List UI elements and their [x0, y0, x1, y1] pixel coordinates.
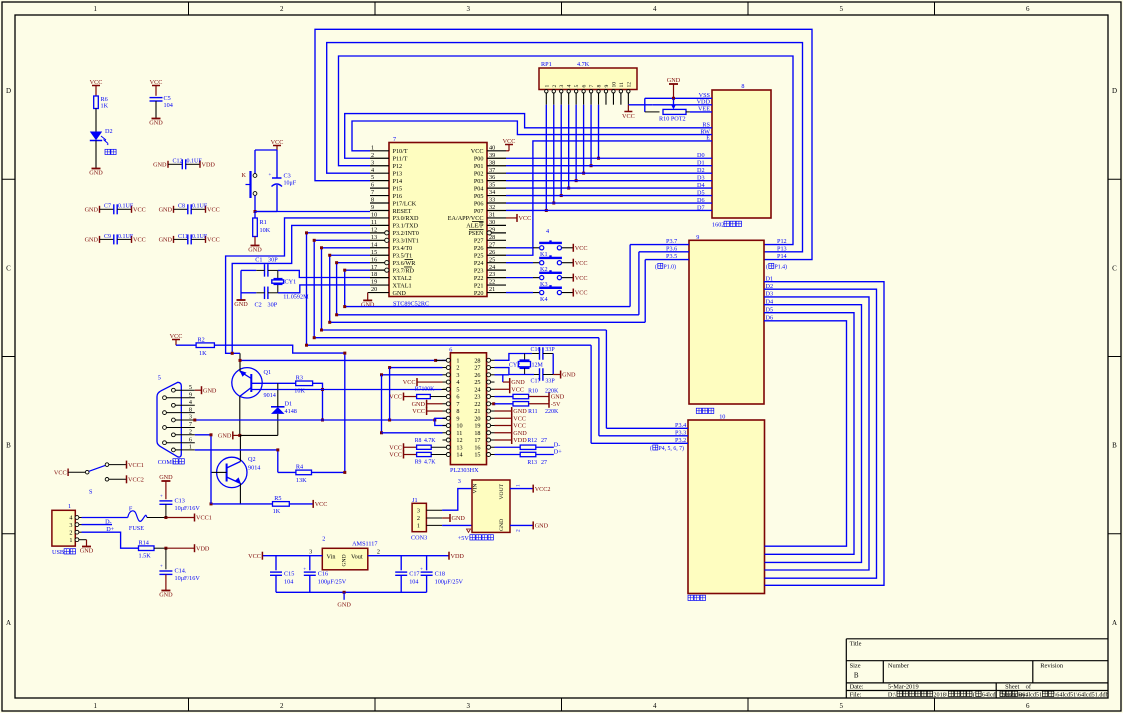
svg-text:3: 3	[417, 507, 420, 514]
svg-text:VCC: VCC	[412, 408, 425, 415]
svg-text:C17: C17	[531, 379, 541, 385]
svg-text:4: 4	[653, 702, 657, 710]
svg-text:30P: 30P	[268, 257, 278, 264]
svg-text:2: 2	[69, 529, 72, 536]
svg-text:39: 39	[489, 152, 495, 159]
svg-text:3: 3	[467, 702, 471, 710]
svg-text:2: 2	[322, 536, 325, 543]
svg-text:VCC: VCC	[511, 386, 524, 393]
svg-text:10: 10	[456, 423, 462, 430]
svg-text:GND: GND	[153, 162, 167, 169]
svg-text:A: A	[6, 619, 11, 627]
svg-text:GND: GND	[80, 548, 94, 555]
svg-text:9014: 9014	[248, 465, 260, 472]
svg-text:C11: C11	[178, 234, 188, 240]
svg-text:K4: K4	[540, 296, 548, 303]
svg-text:1.5K: 1.5K	[139, 552, 152, 559]
svg-text:1K: 1K	[273, 508, 281, 515]
svg-text:C1: C1	[255, 257, 262, 264]
svg-text:VCC: VCC	[150, 79, 163, 86]
svg-text:VIN: VIN	[473, 484, 479, 494]
svg-text:P3.4: P3.4	[675, 422, 686, 429]
svg-text:17: 17	[474, 437, 480, 444]
svg-text:0.1UF: 0.1UF	[118, 234, 134, 240]
svg-text:Sheet of: Sheet of	[1005, 684, 1032, 691]
svg-text:J1: J1	[412, 497, 418, 504]
svg-text:D-: D-	[554, 441, 561, 448]
svg-text:VCC: VCC	[513, 423, 526, 430]
svg-text:1: 1	[516, 484, 522, 487]
svg-text:30P: 30P	[268, 302, 278, 309]
svg-text:3: 3	[69, 522, 72, 529]
svg-text:VCC1: VCC1	[196, 515, 212, 522]
svg-text:8: 8	[456, 408, 459, 415]
svg-text:VCC: VCC	[513, 415, 526, 422]
svg-text:1: 1	[68, 503, 71, 510]
svg-text:C12: C12	[173, 159, 183, 165]
svg-text:0.1UF: 0.1UF	[192, 204, 208, 210]
svg-text:VCC: VCC	[207, 237, 220, 244]
svg-text:10μF: 10μF	[284, 181, 297, 187]
svg-text:8: 8	[597, 85, 603, 88]
svg-text:5: 5	[158, 375, 161, 382]
svg-text:4: 4	[567, 85, 573, 88]
svg-text:30: 30	[489, 219, 495, 226]
svg-text:12M: 12M	[532, 363, 544, 369]
svg-text:B: B	[1112, 442, 1117, 450]
svg-text:VCC: VCC	[389, 444, 402, 451]
svg-text:+: +	[420, 568, 423, 573]
svg-text:32: 32	[489, 204, 495, 211]
svg-text:+: +	[160, 495, 163, 500]
svg-text:100μF/25V: 100μF/25V	[435, 579, 464, 586]
svg-text:P03: P03	[474, 178, 484, 185]
svg-text:2: 2	[377, 549, 380, 556]
svg-text:File:: File:	[850, 692, 862, 699]
svg-text:P13: P13	[393, 170, 403, 177]
svg-text:GND: GND	[159, 237, 173, 244]
svg-text:GND: GND	[393, 290, 407, 297]
svg-text:VCC: VCC	[575, 275, 588, 282]
svg-text:10μF/16V: 10μF/16V	[175, 575, 201, 582]
svg-text:C17: C17	[409, 571, 419, 578]
svg-text:27: 27	[474, 365, 480, 372]
svg-text:1: 1	[417, 523, 420, 530]
svg-text:S: S	[89, 489, 93, 496]
svg-text:21: 21	[474, 408, 480, 415]
svg-text:XTAL2: XTAL2	[393, 275, 412, 282]
svg-text:2: 2	[371, 152, 374, 159]
svg-text:GND: GND	[562, 372, 576, 379]
svg-text:P22: P22	[474, 275, 484, 282]
svg-text:GND: GND	[149, 120, 163, 127]
svg-text:Vin: Vin	[327, 554, 336, 561]
svg-text:P15: P15	[393, 185, 403, 192]
svg-text:5: 5	[456, 386, 459, 393]
svg-text:15: 15	[474, 452, 480, 459]
svg-text:GND: GND	[513, 430, 527, 437]
svg-text:AMS1117: AMS1117	[352, 541, 377, 548]
svg-text:Revision: Revision	[1040, 663, 1064, 670]
svg-text:VCC: VCC	[575, 290, 588, 297]
svg-text:CY1: CY1	[285, 279, 297, 286]
svg-text:4: 4	[456, 379, 459, 386]
svg-text:0.1UF: 0.1UF	[118, 204, 134, 210]
svg-text:25: 25	[474, 379, 480, 386]
svg-text:17: 17	[371, 264, 377, 271]
svg-text:GND: GND	[511, 379, 525, 386]
svg-text:7: 7	[371, 189, 374, 196]
svg-text:(: (	[766, 263, 768, 270]
svg-text:25: 25	[489, 256, 495, 263]
svg-text:8: 8	[189, 406, 192, 413]
svg-text:1: 1	[371, 144, 374, 151]
svg-text:27: 27	[489, 241, 495, 248]
svg-text:D: D	[1112, 87, 1117, 95]
svg-text:64lcd: 64lcd	[982, 692, 997, 699]
svg-text:4: 4	[653, 5, 657, 13]
svg-text:VCC: VCC	[389, 394, 402, 401]
svg-text:VCC: VCC	[471, 148, 484, 155]
svg-text:VCC: VCC	[54, 469, 67, 476]
svg-text:ALE/P: ALE/P	[466, 223, 484, 230]
svg-text:C9: C9	[104, 234, 111, 240]
svg-text:23: 23	[474, 394, 480, 401]
svg-text:22: 22	[474, 401, 480, 408]
svg-text:P05: P05	[474, 193, 484, 200]
svg-text:VCC2: VCC2	[535, 486, 551, 493]
svg-text:6: 6	[1026, 702, 1030, 710]
svg-text:5: 5	[574, 85, 580, 88]
svg-text:COM1: COM1	[158, 459, 177, 466]
svg-text:6: 6	[582, 85, 588, 88]
svg-text:GND: GND	[452, 515, 466, 522]
svg-text:36: 36	[489, 174, 495, 181]
svg-text:38: 38	[489, 159, 495, 166]
svg-text:C16: C16	[318, 571, 328, 578]
svg-text:P25: P25	[474, 253, 484, 260]
svg-text:+: +	[160, 565, 163, 570]
svg-text:6: 6	[456, 394, 459, 401]
svg-text:RESET: RESET	[393, 208, 412, 215]
svg-text:R10: R10	[528, 388, 538, 394]
svg-text:5: 5	[371, 174, 374, 181]
svg-text:6: 6	[189, 436, 192, 443]
svg-text:B: B	[854, 672, 859, 680]
svg-text:D2: D2	[105, 128, 113, 135]
svg-text:10: 10	[371, 212, 377, 219]
svg-text:4: 4	[189, 399, 192, 406]
svg-text:C7: C7	[104, 204, 111, 210]
svg-text:(: (	[650, 445, 652, 452]
svg-text:4.7K: 4.7K	[424, 459, 436, 465]
svg-text:P14: P14	[393, 178, 403, 185]
svg-text:6: 6	[1026, 5, 1030, 13]
svg-text:P1.4): P1.4)	[775, 263, 787, 270]
svg-text:Title: Title	[850, 640, 862, 647]
svg-text:16: 16	[474, 444, 480, 451]
svg-text:4: 4	[546, 228, 549, 235]
svg-text:12: 12	[456, 437, 462, 444]
svg-text:P17/LCK: P17/LCK	[393, 200, 417, 207]
svg-text:VDD: VDD	[451, 553, 465, 560]
svg-text:5: 5	[840, 702, 844, 710]
svg-text:4: 4	[69, 515, 72, 522]
svg-text:P27: P27	[474, 238, 484, 245]
svg-text:16: 16	[371, 256, 377, 263]
svg-text:P4, 5, 6, 7): P4, 5, 6, 7)	[659, 445, 685, 452]
svg-text:P00: P00	[474, 156, 484, 163]
svg-text:2: 2	[516, 529, 522, 532]
svg-text:4: 4	[371, 167, 374, 174]
svg-text:Date:: Date:	[850, 684, 864, 691]
svg-text:220K: 220K	[545, 409, 559, 415]
svg-text:+5V: +5V	[458, 535, 471, 542]
svg-text:2: 2	[280, 5, 284, 13]
svg-text:C14.: C14.	[175, 568, 187, 575]
svg-text:VCC: VCC	[133, 237, 146, 244]
svg-text:P12: P12	[777, 238, 787, 245]
svg-text:VCC: VCC	[403, 379, 416, 386]
svg-text:XTAL1: XTAL1	[393, 282, 412, 289]
svg-text:R2: R2	[198, 337, 205, 344]
svg-text:P11/T: P11/T	[393, 156, 408, 163]
svg-text:GND: GND	[89, 170, 103, 177]
svg-text:R14: R14	[139, 540, 149, 547]
svg-text:GND: GND	[234, 301, 248, 308]
svg-text:26: 26	[489, 249, 495, 256]
svg-text:Number: Number	[888, 663, 910, 670]
svg-text:GND: GND	[535, 523, 549, 530]
svg-text:R5: R5	[274, 495, 281, 502]
svg-text:11: 11	[371, 219, 377, 226]
svg-text:31: 31	[489, 212, 495, 219]
svg-text:C: C	[6, 264, 11, 272]
svg-text:23: 23	[489, 271, 495, 278]
svg-text:3: 3	[467, 5, 471, 13]
svg-text:R8: R8	[415, 438, 422, 444]
svg-text:26: 26	[474, 372, 480, 379]
svg-text:7: 7	[393, 136, 396, 143]
svg-text:VCC: VCC	[519, 215, 532, 222]
svg-text:Q1: Q1	[264, 369, 272, 376]
svg-text:USB: USB	[52, 549, 66, 556]
svg-text:P23: P23	[474, 267, 484, 274]
svg-text:1: 1	[69, 537, 72, 544]
svg-text:13K: 13K	[296, 477, 307, 484]
svg-text:C16: C16	[531, 347, 541, 353]
svg-text:0.1UF: 0.1UF	[192, 234, 208, 240]
svg-text:2: 2	[189, 429, 192, 436]
svg-text:P26: P26	[474, 245, 484, 252]
svg-text:34: 34	[489, 189, 495, 196]
svg-text:GND: GND	[159, 474, 173, 481]
svg-text:VCC: VCC	[207, 207, 220, 214]
svg-text:P01: P01	[474, 163, 484, 170]
svg-text:GND: GND	[203, 387, 217, 394]
svg-text:9: 9	[604, 85, 610, 88]
svg-text:22: 22	[489, 279, 495, 286]
svg-text:3: 3	[559, 85, 565, 88]
svg-text:4148: 4148	[285, 408, 297, 415]
svg-text:C3: C3	[284, 173, 291, 180]
svg-text:C15: C15	[284, 571, 294, 578]
svg-text:Vout: Vout	[351, 554, 363, 561]
svg-text:P24: P24	[474, 260, 484, 267]
svg-text:11: 11	[619, 82, 625, 88]
svg-text:GND: GND	[513, 408, 527, 415]
svg-text:0.1UF: 0.1UF	[187, 159, 203, 165]
svg-text:D:\: D:\	[888, 692, 896, 699]
svg-text:1: 1	[189, 444, 192, 451]
svg-text:20: 20	[371, 286, 377, 293]
svg-text:GND: GND	[412, 401, 426, 408]
svg-text:VCC: VCC	[271, 139, 284, 146]
svg-text:P3.1/TXD: P3.1/TXD	[393, 223, 419, 230]
svg-text:GND: GND	[499, 519, 505, 531]
svg-text:GND: GND	[551, 394, 565, 401]
svg-text:м64lcd51: м64lcd51	[1018, 692, 1042, 699]
svg-text:P3.4/T0: P3.4/T0	[393, 245, 413, 252]
svg-text:+: +	[269, 173, 272, 178]
svg-text:11.0592M: 11.0592M	[283, 294, 309, 301]
svg-text:P10/T: P10/T	[393, 148, 408, 155]
svg-text:GND: GND	[218, 433, 232, 440]
svg-text:F: F	[129, 506, 133, 513]
svg-text:14: 14	[456, 452, 462, 459]
svg-text:GND: GND	[159, 207, 173, 214]
svg-text:VCC: VCC	[622, 113, 635, 120]
svg-text:GND: GND	[85, 207, 99, 214]
svg-text:P04: P04	[474, 185, 484, 192]
svg-text:10: 10	[611, 82, 617, 88]
svg-text:VDD: VDD	[196, 545, 210, 552]
svg-text:P20: P20	[474, 290, 484, 297]
svg-text:2: 2	[417, 515, 420, 522]
svg-text:10K: 10K	[294, 388, 305, 395]
svg-text:6: 6	[371, 182, 374, 189]
svg-text:P12: P12	[393, 163, 403, 170]
svg-text:R12: R12	[527, 438, 537, 444]
svg-text:5: 5	[840, 5, 844, 13]
svg-text:3: 3	[456, 372, 459, 379]
svg-text:(: (	[973, 692, 975, 699]
svg-text:27: 27	[541, 460, 547, 466]
svg-text:D1: D1	[285, 401, 293, 408]
svg-text:3: 3	[371, 159, 374, 166]
svg-text:1: 1	[94, 5, 98, 13]
svg-text:1: 1	[94, 702, 98, 710]
svg-text:8: 8	[371, 197, 374, 204]
svg-text:VOUT: VOUT	[499, 483, 505, 499]
svg-text:3: 3	[189, 414, 192, 421]
svg-text:P07: P07	[474, 208, 484, 215]
svg-text:R7100K: R7100K	[415, 386, 435, 392]
svg-text:33P: 33P	[545, 379, 555, 385]
svg-text:12: 12	[371, 226, 377, 233]
svg-text:R4: R4	[296, 464, 303, 471]
svg-text:27: 27	[541, 438, 547, 444]
svg-text:P3.3/INT1: P3.3/INT1	[393, 238, 419, 245]
svg-text:9: 9	[456, 415, 459, 422]
svg-text:VDD: VDD	[202, 162, 216, 169]
svg-text:3: 3	[458, 478, 461, 485]
svg-text:100μF/25V: 100μF/25V	[318, 579, 347, 586]
svg-text:9: 9	[371, 204, 374, 211]
svg-text:GND: GND	[667, 77, 681, 84]
svg-text:37: 37	[489, 167, 495, 174]
svg-text:2: 2	[280, 702, 284, 710]
svg-text:VCC: VCC	[133, 207, 146, 214]
svg-text:13: 13	[371, 234, 377, 241]
svg-text:2: 2	[456, 365, 459, 372]
svg-text:3: 3	[309, 549, 312, 556]
svg-text:33: 33	[489, 197, 495, 204]
svg-text:FUSE: FUSE	[129, 525, 144, 532]
svg-text:VCC: VCC	[389, 452, 402, 459]
svg-text:1602: 1602	[712, 222, 724, 229]
svg-text:B: B	[6, 442, 11, 450]
svg-text:1K: 1K	[199, 350, 207, 357]
svg-text:28: 28	[474, 358, 480, 365]
svg-text:R3: R3	[296, 375, 303, 382]
svg-text:4.7K: 4.7K	[424, 438, 436, 444]
svg-text:CY2: CY2	[509, 363, 520, 369]
svg-text:GND: GND	[337, 602, 351, 609]
svg-text:P3.2/INT0: P3.2/INT0	[393, 230, 419, 237]
svg-text:8: 8	[741, 83, 744, 90]
svg-text:RP1: RP1	[541, 61, 552, 68]
svg-text:19: 19	[371, 279, 377, 286]
svg-text:P3.6/WR: P3.6/WR	[393, 260, 417, 267]
svg-text:R13: R13	[527, 460, 537, 466]
svg-text:GND: GND	[342, 554, 348, 566]
svg-text:GND: GND	[361, 301, 375, 308]
svg-text:VCC: VCC	[170, 333, 183, 340]
svg-text:104: 104	[284, 579, 293, 586]
svg-text:10K: 10K	[260, 227, 271, 234]
svg-text:D+: D+	[554, 448, 562, 455]
svg-text:C13: C13	[175, 498, 185, 505]
svg-text:Q2: Q2	[248, 456, 256, 463]
svg-text:VCC2: VCC2	[128, 477, 144, 484]
svg-text:5: 5	[189, 384, 192, 391]
svg-text:14: 14	[371, 241, 377, 248]
svg-text:2: 2	[552, 85, 558, 88]
svg-text:CON3: CON3	[411, 535, 427, 542]
svg-text:R11: R11	[528, 409, 538, 415]
svg-text:R10 POT2: R10 POT2	[659, 116, 686, 123]
svg-text:-5V: -5V	[551, 401, 561, 408]
svg-text:VCC: VCC	[315, 501, 328, 508]
svg-text:VDD: VDD	[513, 437, 527, 444]
svg-text:C18: C18	[435, 571, 445, 578]
svg-text:7: 7	[189, 421, 192, 428]
svg-text:P1.0): P1.0)	[664, 263, 676, 270]
svg-text:35: 35	[489, 182, 495, 189]
svg-text:24: 24	[489, 264, 495, 271]
svg-text:9014: 9014	[264, 392, 276, 399]
svg-text:K: K	[242, 172, 247, 179]
svg-text:7: 7	[589, 85, 595, 88]
svg-text:6: 6	[449, 347, 452, 354]
svg-text:GND: GND	[85, 237, 99, 244]
svg-text:(: (	[655, 263, 657, 270]
svg-text:1K: 1K	[101, 103, 109, 110]
svg-text:P3.7/RD: P3.7/RD	[393, 267, 415, 274]
svg-text:P3.0/RXD: P3.0/RXD	[393, 215, 419, 222]
svg-text:104: 104	[164, 102, 173, 109]
